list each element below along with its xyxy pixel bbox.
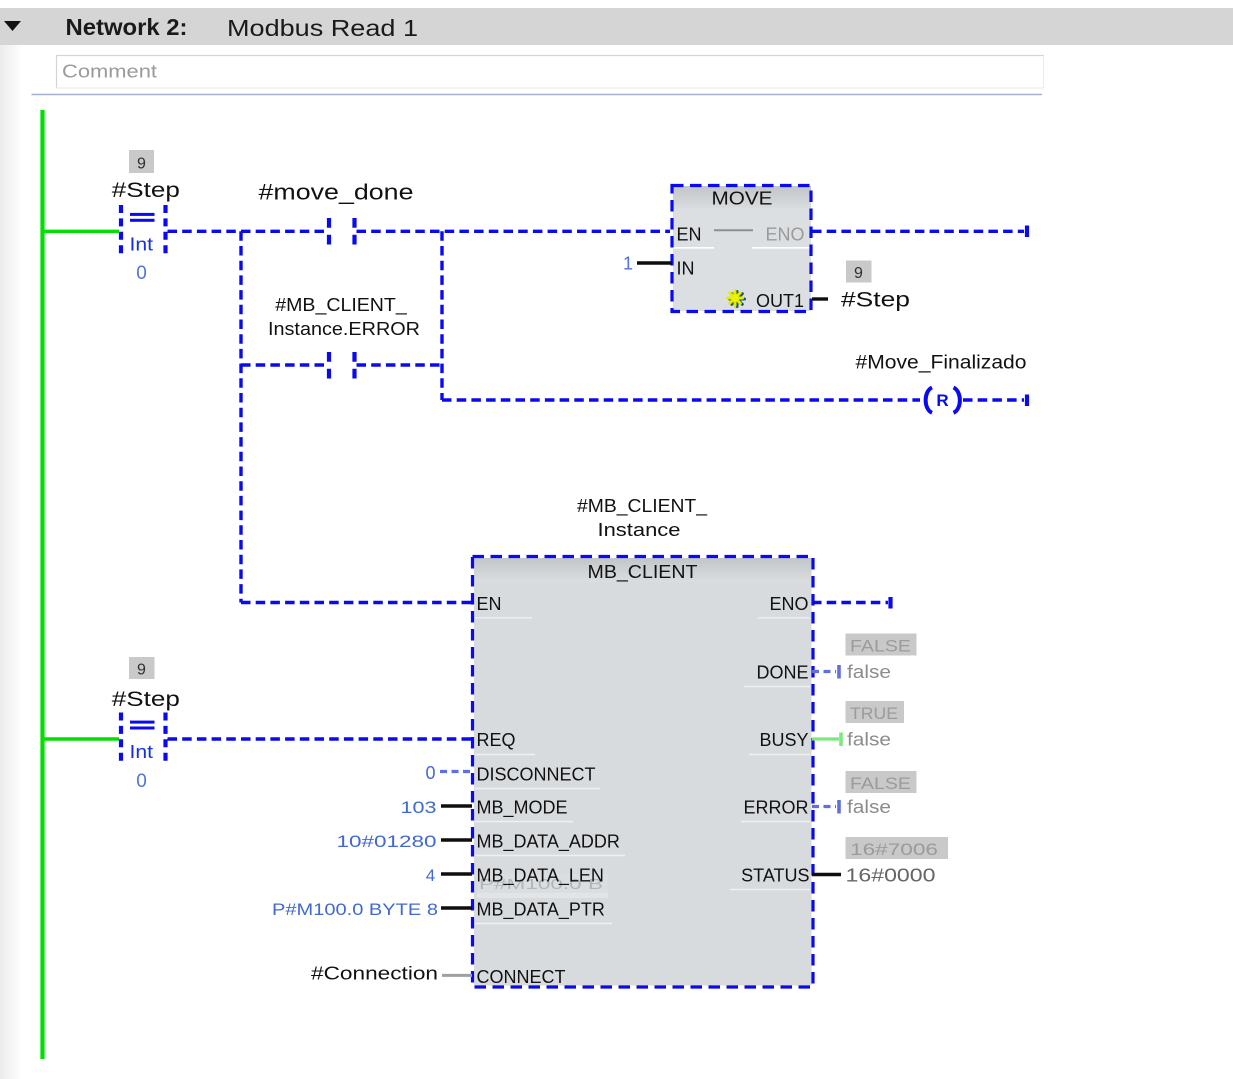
svg-text:0: 0: [136, 771, 147, 792]
coil rung open end tick: [1025, 395, 1029, 407]
svg-text:#Step: #Step: [112, 688, 180, 711]
svg-text:16#7006: 16#7006: [850, 840, 938, 859]
node B: branch junction down to R coil rung: [440, 231, 443, 400]
monitor value box FALSE (DONE): [846, 634, 917, 656]
instance label #MB_CLIENT_Instance (block U2): [577, 496, 708, 540]
wire: node A down-leg to MB_CLIENT EN: [241, 601, 472, 604]
svg-text:Network 2:: Network 2:: [66, 14, 188, 40]
svg-text:EN: EN: [677, 225, 702, 245]
svg-text:FALSE: FALSE: [850, 637, 911, 656]
svg-text:Modbus Read 1: Modbus Read 1: [227, 15, 418, 41]
svg-text:4: 4: [426, 866, 435, 885]
svg-text:#Move_Finalizado: #Move_Finalizado: [856, 353, 1027, 374]
monitor value box FALSE (ERROR): [846, 771, 917, 793]
svg-text:P#M100.0 BYTE 8: P#M100.0 BYTE 8: [272, 900, 438, 919]
svg-text:Instance.ERROR: Instance.ERROR: [268, 319, 420, 339]
svg-text:BUSY: BUSY: [759, 730, 808, 750]
svg-text:REQ: REQ: [477, 730, 516, 750]
wire: rung1 contact C1 to contact #move_done: [168, 230, 328, 233]
wire: OUT1 output stub (black): [812, 297, 828, 300]
wire: error rung to node B: [357, 363, 443, 366]
wire: rung2 green lead from rail: [43, 737, 120, 740]
comment box: [56, 56, 1044, 89]
svg-text:#Connection: #Connection: [311, 964, 438, 984]
svg-text:1: 1: [623, 254, 633, 274]
wire: CONNECT input (gray): [442, 974, 472, 977]
svg-text:ERROR: ERROR: [743, 798, 808, 818]
wire: MB_DATA_ADDR input (black): [441, 838, 472, 841]
wire: MB_CLIENT ENO out: [812, 601, 888, 604]
MOVE block U1 body: [673, 186, 811, 311]
ENO open end tick: [888, 597, 892, 609]
comparator contact C1 (#Step == Int 0): [121, 205, 166, 259]
MB_CLIENT row separator lines: [475, 618, 810, 924]
monitor value box "9" (contact C1): [129, 150, 154, 173]
collapse arrow: [4, 21, 21, 31]
contact #move_done: [329, 218, 355, 245]
svg-text:#MB_CLIENT_: #MB_CLIENT_: [577, 496, 708, 517]
DONE stub end tick: [837, 665, 841, 679]
svg-text:MB_DATA_ADDR: MB_DATA_ADDR: [477, 832, 620, 853]
wire: MB_MODE input (black): [441, 804, 472, 807]
wire: rung1 contact #move_done to MOVE EN: [357, 230, 671, 233]
comparator contact C3 (#Step == Int 0): [121, 713, 166, 767]
svg-text:0: 0: [136, 263, 147, 284]
wire: STATUS output stub (black): [812, 873, 841, 876]
MB_CLIENT block U2 body: [474, 558, 812, 986]
svg-text:OUT1: OUT1: [756, 291, 804, 311]
wire: BUSY stub (light green): [812, 737, 839, 740]
wire: MOVE ENO to right end: [812, 230, 1024, 233]
contact C2 #MB_CLIENT_Instance.ERROR: [329, 352, 355, 379]
svg-text:Comment: Comment: [62, 62, 157, 82]
svg-text:EN: EN: [477, 594, 502, 614]
operand label #MB_CLIENT_Instance.ERROR (contact C2): [268, 295, 420, 339]
energize star icon at OUT1: [728, 291, 745, 307]
svg-text:MB_DATA_LEN: MB_DATA_LEN: [477, 866, 604, 887]
wire: R coil to right end: [963, 398, 1024, 401]
svg-text:#move_done: #move_done: [259, 180, 414, 205]
MOVE block U1 dashed border: [672, 186, 811, 312]
svg-text:TRUE: TRUE: [850, 704, 898, 723]
svg-text:DONE: DONE: [756, 663, 808, 683]
svg-text:0: 0: [425, 763, 435, 783]
svg-text:MB_DATA_PTR: MB_DATA_PTR: [477, 900, 605, 921]
svg-text:Int: Int: [130, 742, 154, 762]
svg-text:ENO: ENO: [769, 594, 808, 614]
svg-text:ENO: ENO: [766, 225, 805, 245]
reset coil (R): [926, 388, 960, 413]
wire: MB_DATA_PTR input (black): [441, 906, 472, 909]
monitor value box 16#7006 (STATUS): [846, 837, 949, 859]
svg-text:9: 9: [137, 156, 146, 173]
wire: error rung from node A: [241, 363, 327, 366]
wire: rung2 contact C3 to MB_CLIENT REQ: [168, 737, 473, 740]
svg-text:MOVE: MOVE: [712, 189, 773, 209]
svg-text:10#01280: 10#01280: [337, 832, 437, 851]
svg-text:#MB_CLIENT_: #MB_CLIENT_: [275, 295, 408, 316]
svg-text:#Step: #Step: [112, 179, 180, 202]
network header bar: [0, 8, 1233, 45]
MOVE EN-ENO inactive flow line: [714, 229, 753, 231]
left edge fade: [0, 45, 22, 1079]
svg-text:false: false: [847, 730, 891, 750]
wire: rung1 green lead from rail: [43, 230, 120, 233]
svg-text:Instance: Instance: [598, 520, 681, 540]
wire: DISCONNECT stub (light blue): [440, 770, 472, 773]
svg-text:9: 9: [854, 265, 863, 282]
wire: MB_DATA_LEN input (black): [441, 872, 472, 875]
svg-text:STATUS: STATUS: [741, 866, 809, 886]
svg-text:CONNECT: CONNECT: [477, 967, 566, 987]
node A: branch junction down to MB_CLIENT EN: [239, 231, 242, 602]
svg-text:16#0000: 16#0000: [846, 866, 936, 886]
svg-text:Int: Int: [130, 235, 154, 255]
svg-text:103: 103: [401, 798, 437, 817]
svg-text:9: 9: [137, 662, 146, 679]
svg-text:FALSE: FALSE: [850, 774, 911, 793]
wire: DONE stub (light blue): [812, 670, 836, 673]
monitor value box "9" (contact C3): [129, 657, 155, 679]
monitor value box "9" (MOVE OUT1): [846, 261, 872, 283]
rung1 open end tick: [1025, 226, 1029, 238]
MB_CLIENT block U2 dashed border: [473, 557, 814, 988]
ERROR stub end tick: [837, 800, 841, 814]
MB_CLIENT ghost value under MB_DATA_LEN: [477, 874, 608, 898]
svg-text:IN: IN: [677, 259, 695, 279]
svg-text:R: R: [936, 391, 948, 410]
wire: node B to R coil: [442, 398, 920, 401]
svg-text:MB_MODE: MB_MODE: [477, 798, 568, 819]
svg-text:false: false: [847, 797, 891, 817]
wire: ERROR stub (light blue): [812, 805, 836, 808]
left power rail: [40, 110, 44, 1059]
svg-text:DISCONNECT: DISCONNECT: [477, 765, 596, 785]
comment separator line: [32, 94, 1043, 96]
svg-text:#Step: #Step: [841, 289, 910, 312]
monitor value box TRUE (BUSY): [846, 701, 905, 723]
BUSY stub end tick: [839, 733, 843, 747]
svg-text:false: false: [847, 662, 891, 682]
svg-text:MB_CLIENT: MB_CLIENT: [588, 562, 698, 583]
wire: IN input (black): [637, 261, 672, 264]
